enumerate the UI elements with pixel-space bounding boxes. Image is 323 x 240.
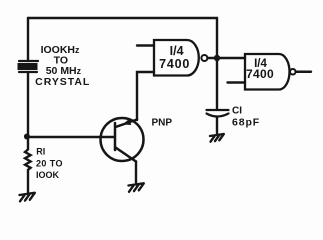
wire top rail — [28, 17, 217, 19]
wire left rail middle — [27, 72, 29, 149]
label crystal value — [35, 44, 90, 88]
svg-text:20 TO: 20 TO — [36, 159, 63, 169]
crystal Y1 — [18, 61, 39, 72]
label R1 value — [36, 147, 63, 181]
nand gate U1b — [245, 54, 290, 90]
nand gate U1a — [154, 40, 199, 76]
svg-text:I/4: I/4 — [170, 44, 184, 58]
transistor Q1 PNP — [101, 118, 144, 162]
svg-text:7400: 7400 — [159, 57, 190, 71]
wire C1 to ground — [216, 118, 218, 134]
wire gate2 input stub — [228, 81, 246, 83]
emitter arrowhead — [123, 119, 132, 125]
node B junction dot — [214, 55, 220, 61]
wire collector to ground — [135, 162, 137, 183]
wire gate2 output — [296, 71, 311, 73]
capacitor C1 — [207, 110, 229, 117]
svg-text:RI: RI — [36, 147, 45, 157]
wire emitter to gate1 input — [137, 72, 154, 120]
wire gate1 input stub — [137, 44, 154, 46]
svg-text:PNP: PNP — [152, 118, 173, 129]
wire left rail upper — [27, 18, 29, 61]
svg-text:7400: 7400 — [246, 67, 274, 81]
bubble U1a — [201, 55, 207, 61]
wire base — [28, 136, 114, 138]
ground (below R1) — [20, 193, 35, 202]
label U1a 1/4 7400 — [159, 44, 190, 71]
wire gate1 output — [207, 57, 217, 59]
resistor R1 — [25, 150, 31, 170]
ground (below C1) — [210, 134, 224, 142]
bubble U1b — [290, 69, 296, 75]
node A junction dot — [24, 134, 30, 140]
wire right rail — [216, 18, 218, 109]
label U1b 1/4 7400 — [246, 58, 274, 81]
wire R1 to ground — [27, 170, 29, 193]
svg-text:68pF: 68pF — [232, 116, 260, 128]
wire node B to gate2 input — [217, 57, 245, 59]
ground (below Q1) — [129, 183, 144, 192]
svg-text:CI: CI — [232, 105, 242, 116]
label C1 value — [232, 105, 260, 128]
svg-text:CRYSTAL: CRYSTAL — [35, 76, 90, 88]
svg-text:IOOK: IOOK — [36, 170, 60, 180]
